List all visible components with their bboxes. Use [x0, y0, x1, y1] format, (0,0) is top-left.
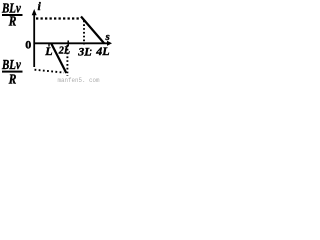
dashed line at -BLv/R from axis to 2L: [35, 70, 65, 73]
tick at 2L: [67, 41, 69, 47]
svg-text:0: 0: [25, 37, 31, 51]
tick at L: [48, 43, 50, 46]
label BLv/R (top, +BLv/R level): [1, 1, 22, 29]
svg-text:4L: 4L: [95, 44, 109, 58]
svg-text:s: s: [105, 31, 110, 43]
ramp from (3L, +BLv/R) down to x-axis: [81, 17, 104, 44]
label BLv/R (bottom, -BLv/R level): [1, 57, 22, 87]
svg-text:2L: 2L: [58, 45, 70, 56]
svg-text:R: R: [8, 13, 16, 28]
ramp from (L,0) down to (2L, -BLv/R): [51, 43, 66, 73]
svg-text:R: R: [8, 72, 16, 87]
svg-text:manfen5. com: manfen5. com: [58, 77, 100, 85]
dotted vertical at 3L: [83, 21, 85, 45]
y-axis: [32, 9, 37, 67]
svg-text:3L: 3L: [77, 45, 91, 59]
x-axis: [34, 41, 112, 46]
dashed line at +BLv/R from axis to 3L: [36, 17, 81, 19]
dotted vertical at 2L down to -BLv/R: [66, 45, 68, 76]
stray dot near 4L: [90, 50, 92, 52]
svg-text:BLv: BLv: [1, 57, 21, 72]
